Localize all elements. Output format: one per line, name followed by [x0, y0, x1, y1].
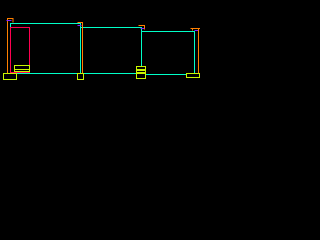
- resistor R1 (red box body): [11, 28, 30, 73]
- wire bottom bus left y=73: [17, 73, 137, 75]
- wire vertical node A x=80: [80, 23, 82, 73]
- wire net C horizontal y=31: [141, 31, 195, 33]
- pin P1 name bar: [7, 20, 12, 22]
- pin P4 long leg down to pad: [198, 28, 200, 73]
- capacitor C1 (yellow box bottom-left): [4, 74, 17, 80]
- wire stub into R1 top: [10, 23, 12, 27]
- pad square (yellow box mid): [78, 74, 84, 80]
- wire bottom bus right y=74: [146, 74, 187, 76]
- pin P1 bracket: [8, 19, 14, 74]
- capacitor C2 (yellow box with midline): [15, 66, 30, 72]
- pin P2 bracket: [78, 23, 83, 74]
- pin P3 name bar: [141, 28, 145, 30]
- pin P4 short leg: [192, 28, 194, 31]
- capacitor C3 (yellow box with two bars): [137, 67, 146, 79]
- pin P4 name bar: [195, 30, 199, 32]
- pin P2 name bar: [78, 25, 82, 27]
- wire vertical node B x=141: [141, 27, 143, 66]
- pin P3 bracket: [139, 26, 145, 30]
- pin P4 bracket bar: [191, 28, 201, 30]
- wire net A horizontal y=23: [10, 23, 81, 25]
- wire vertical node C x=194: [194, 31, 196, 73]
- wire net B horizontal y=27: [80, 27, 142, 29]
- pad rect (yellow box bottom-right): [187, 74, 200, 78]
